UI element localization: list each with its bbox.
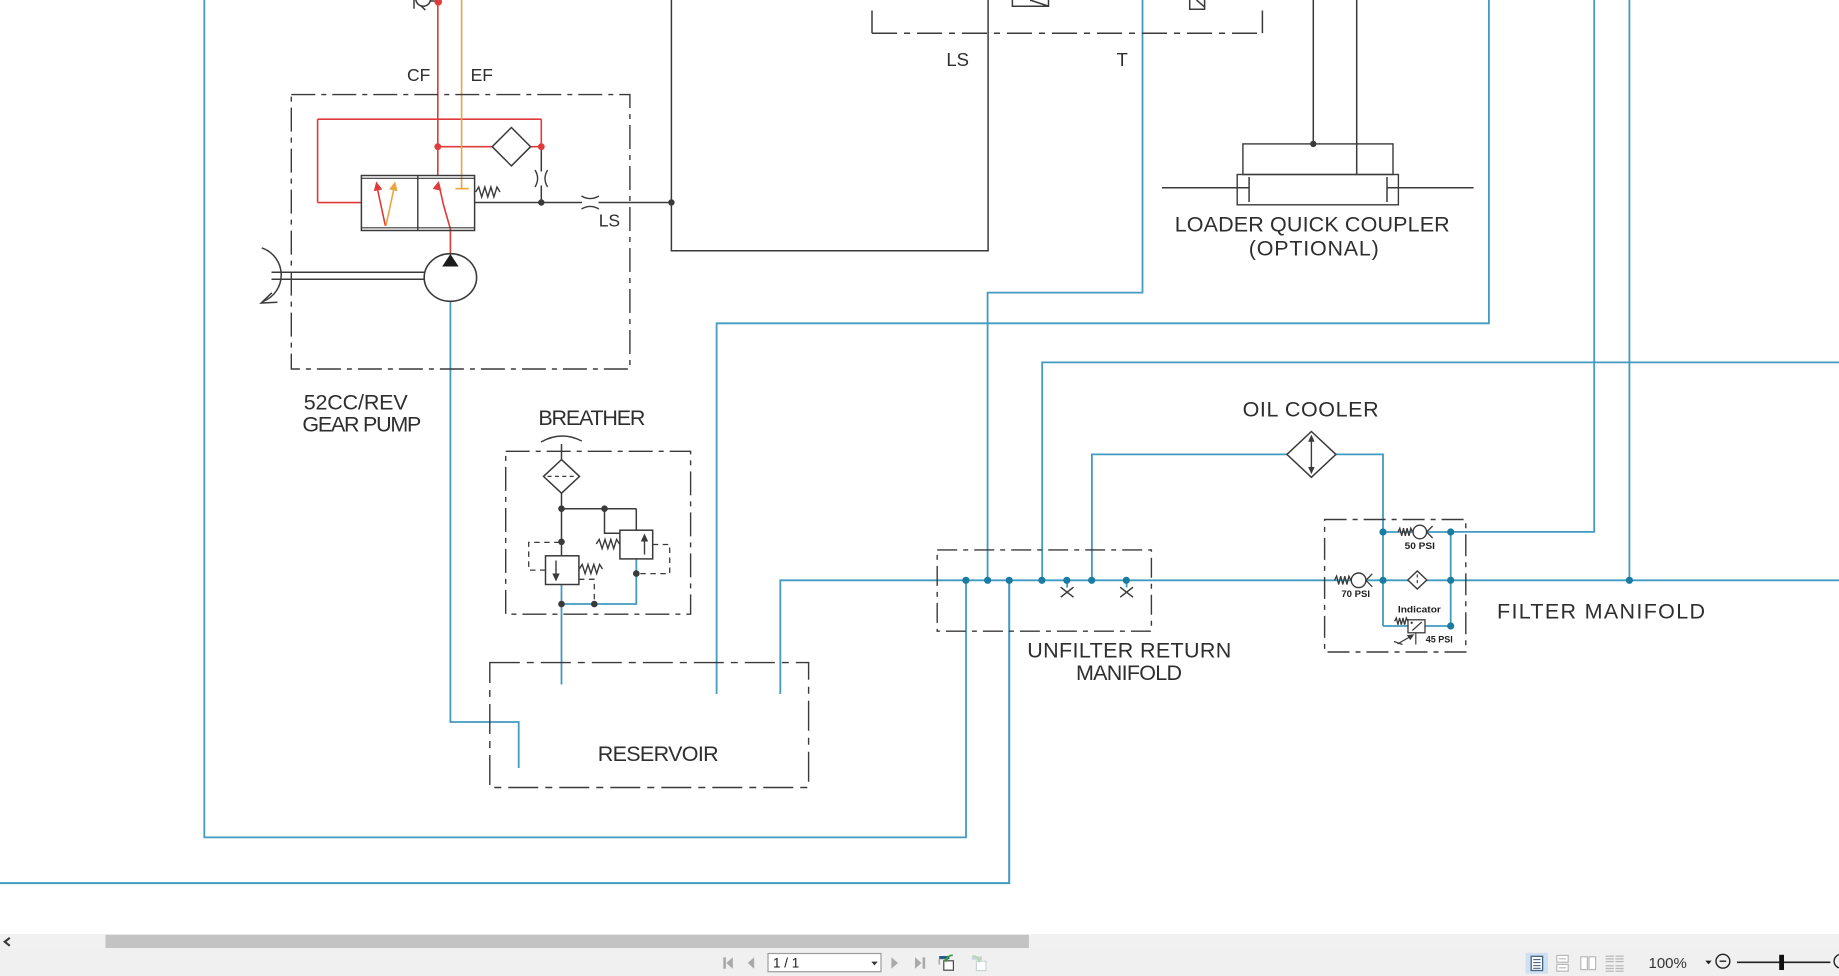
svg-text:EF: EF [471,65,493,85]
svg-text:BREATHER: BREATHER [538,406,645,430]
svg-text:GEAR PUMP: GEAR PUMP [302,413,421,437]
svg-text:LS: LS [946,49,969,70]
svg-text:FILTER MANIFOLD: FILTER MANIFOLD [1497,600,1705,624]
svg-text:70 PSI: 70 PSI [1341,589,1370,600]
svg-text:OIL COOLER: OIL COOLER [1243,398,1379,422]
svg-text:UNFILTER RETURN: UNFILTER RETURN [1027,638,1231,662]
svg-text:(OPTIONAL): (OPTIONAL) [1249,237,1379,261]
svg-text:RESERVOIR: RESERVOIR [598,742,719,766]
svg-text:100%: 100% [1649,955,1687,972]
svg-text:52CC/REV: 52CC/REV [304,391,409,415]
svg-text:CF: CF [407,65,430,85]
svg-text:1 / 1: 1 / 1 [773,955,799,970]
svg-text:Indicator: Indicator [1398,604,1441,615]
svg-text:T: T [1117,49,1128,70]
svg-text:MANIFOLD: MANIFOLD [1076,661,1182,685]
svg-text:50 PSI: 50 PSI [1405,541,1435,552]
svg-text:LOADER QUICK COUPLER: LOADER QUICK COUPLER [1175,213,1450,237]
svg-text:45 PSI: 45 PSI [1426,635,1453,646]
svg-text:LS: LS [599,210,620,230]
